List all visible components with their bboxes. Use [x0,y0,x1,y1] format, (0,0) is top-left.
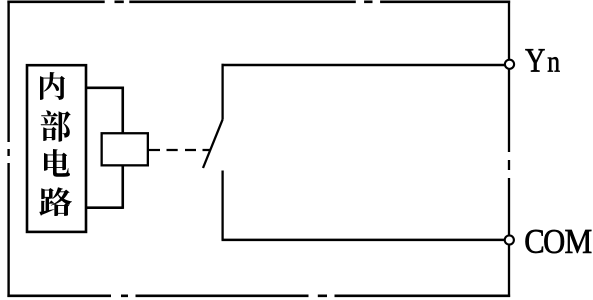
wire to Yn terminal [222,64,505,67]
label COM [525,230,542,253]
enclosure left edge (with break mark) [7,1,9,298]
internal circuit box (nei bu dian lu) [27,65,86,232]
wire: box to coil bus (top) [86,87,123,90]
enclosure bottom edge (with two break marks) [7,294,510,297]
relay coil K [102,133,148,165]
contact upper terminal wire [221,64,223,120]
contact blade (normally-open) [203,120,223,169]
terminal Yn (circle) [505,60,514,69]
character nei [40,72,65,100]
wire to COM terminal [222,239,505,242]
character lu [39,187,72,216]
character dian [44,149,70,177]
label Yn [525,49,544,71]
enclosure right edge (with break mark) [508,1,510,298]
character bu [41,110,71,141]
coil lead wire [148,149,160,151]
enclosure top edge (with two break marks) [7,0,510,3]
terminal COM (circle) [505,235,514,244]
contact lower terminal wire [221,171,223,241]
wire: coil bus vertical [121,87,124,209]
wire: box to coil bus (bottom) [86,206,123,209]
mechanical link dashed line [167,149,211,151]
